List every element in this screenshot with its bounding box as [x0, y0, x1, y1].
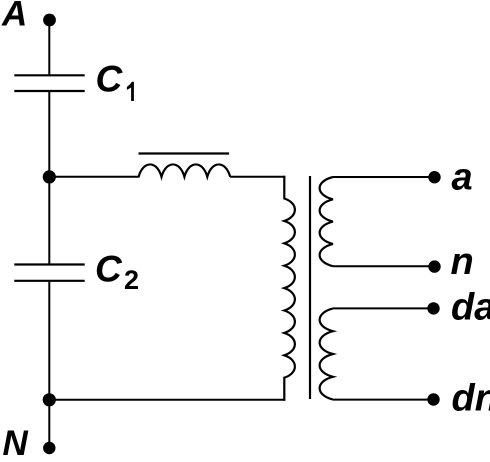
- svg-text:n: n: [451, 241, 474, 283]
- svg-text:A: A: [1, 0, 27, 33]
- terminal A dot: [43, 14, 56, 27]
- transformer core: [309, 176, 311, 399]
- svg-text:da: da: [451, 287, 490, 329]
- terminal dn dot: [427, 393, 439, 405]
- wire node to C2: [48, 177, 50, 265]
- label C2: [95, 249, 139, 296]
- wire winding1 to n: [333, 265, 434, 267]
- transformer primary winding: [284, 176, 295, 401]
- wire A to C1: [48, 20, 50, 76]
- terminal N dot: [43, 442, 55, 454]
- svg-text:C: C: [95, 249, 123, 290]
- svg-text:C: C: [96, 59, 124, 100]
- svg-text:2: 2: [124, 265, 139, 295]
- wire C2 to bottom node: [48, 281, 50, 400]
- terminal a dot: [428, 171, 440, 183]
- capacitor C2: [14, 265, 84, 281]
- svg-text:a: a: [452, 156, 473, 198]
- inductor L (compensating reactor): [139, 164, 231, 176]
- wire reactor to primary: [230, 176, 285, 178]
- wire node to N: [48, 400, 50, 448]
- svg-text:dn: dn: [452, 378, 490, 420]
- wire C1 to node: [48, 91, 50, 177]
- node junction top: [43, 170, 56, 183]
- capacitor C1: [14, 75, 84, 91]
- wire winding1 to a: [333, 176, 434, 178]
- inductor core bar: [139, 152, 230, 154]
- secondary winding 1 (a-n): [320, 177, 333, 266]
- node junction bottom: [43, 393, 56, 406]
- wire node to reactor: [49, 176, 139, 178]
- terminal n dot: [428, 260, 440, 272]
- wire primary bottom to node: [49, 399, 285, 401]
- svg-text:N: N: [3, 424, 29, 457]
- secondary winding 2 (da-dn): [320, 308, 333, 399]
- label C1: [96, 59, 134, 102]
- wire winding2 to dn: [333, 399, 434, 401]
- wire winding2 to da: [333, 307, 434, 309]
- terminal da dot: [427, 302, 439, 314]
